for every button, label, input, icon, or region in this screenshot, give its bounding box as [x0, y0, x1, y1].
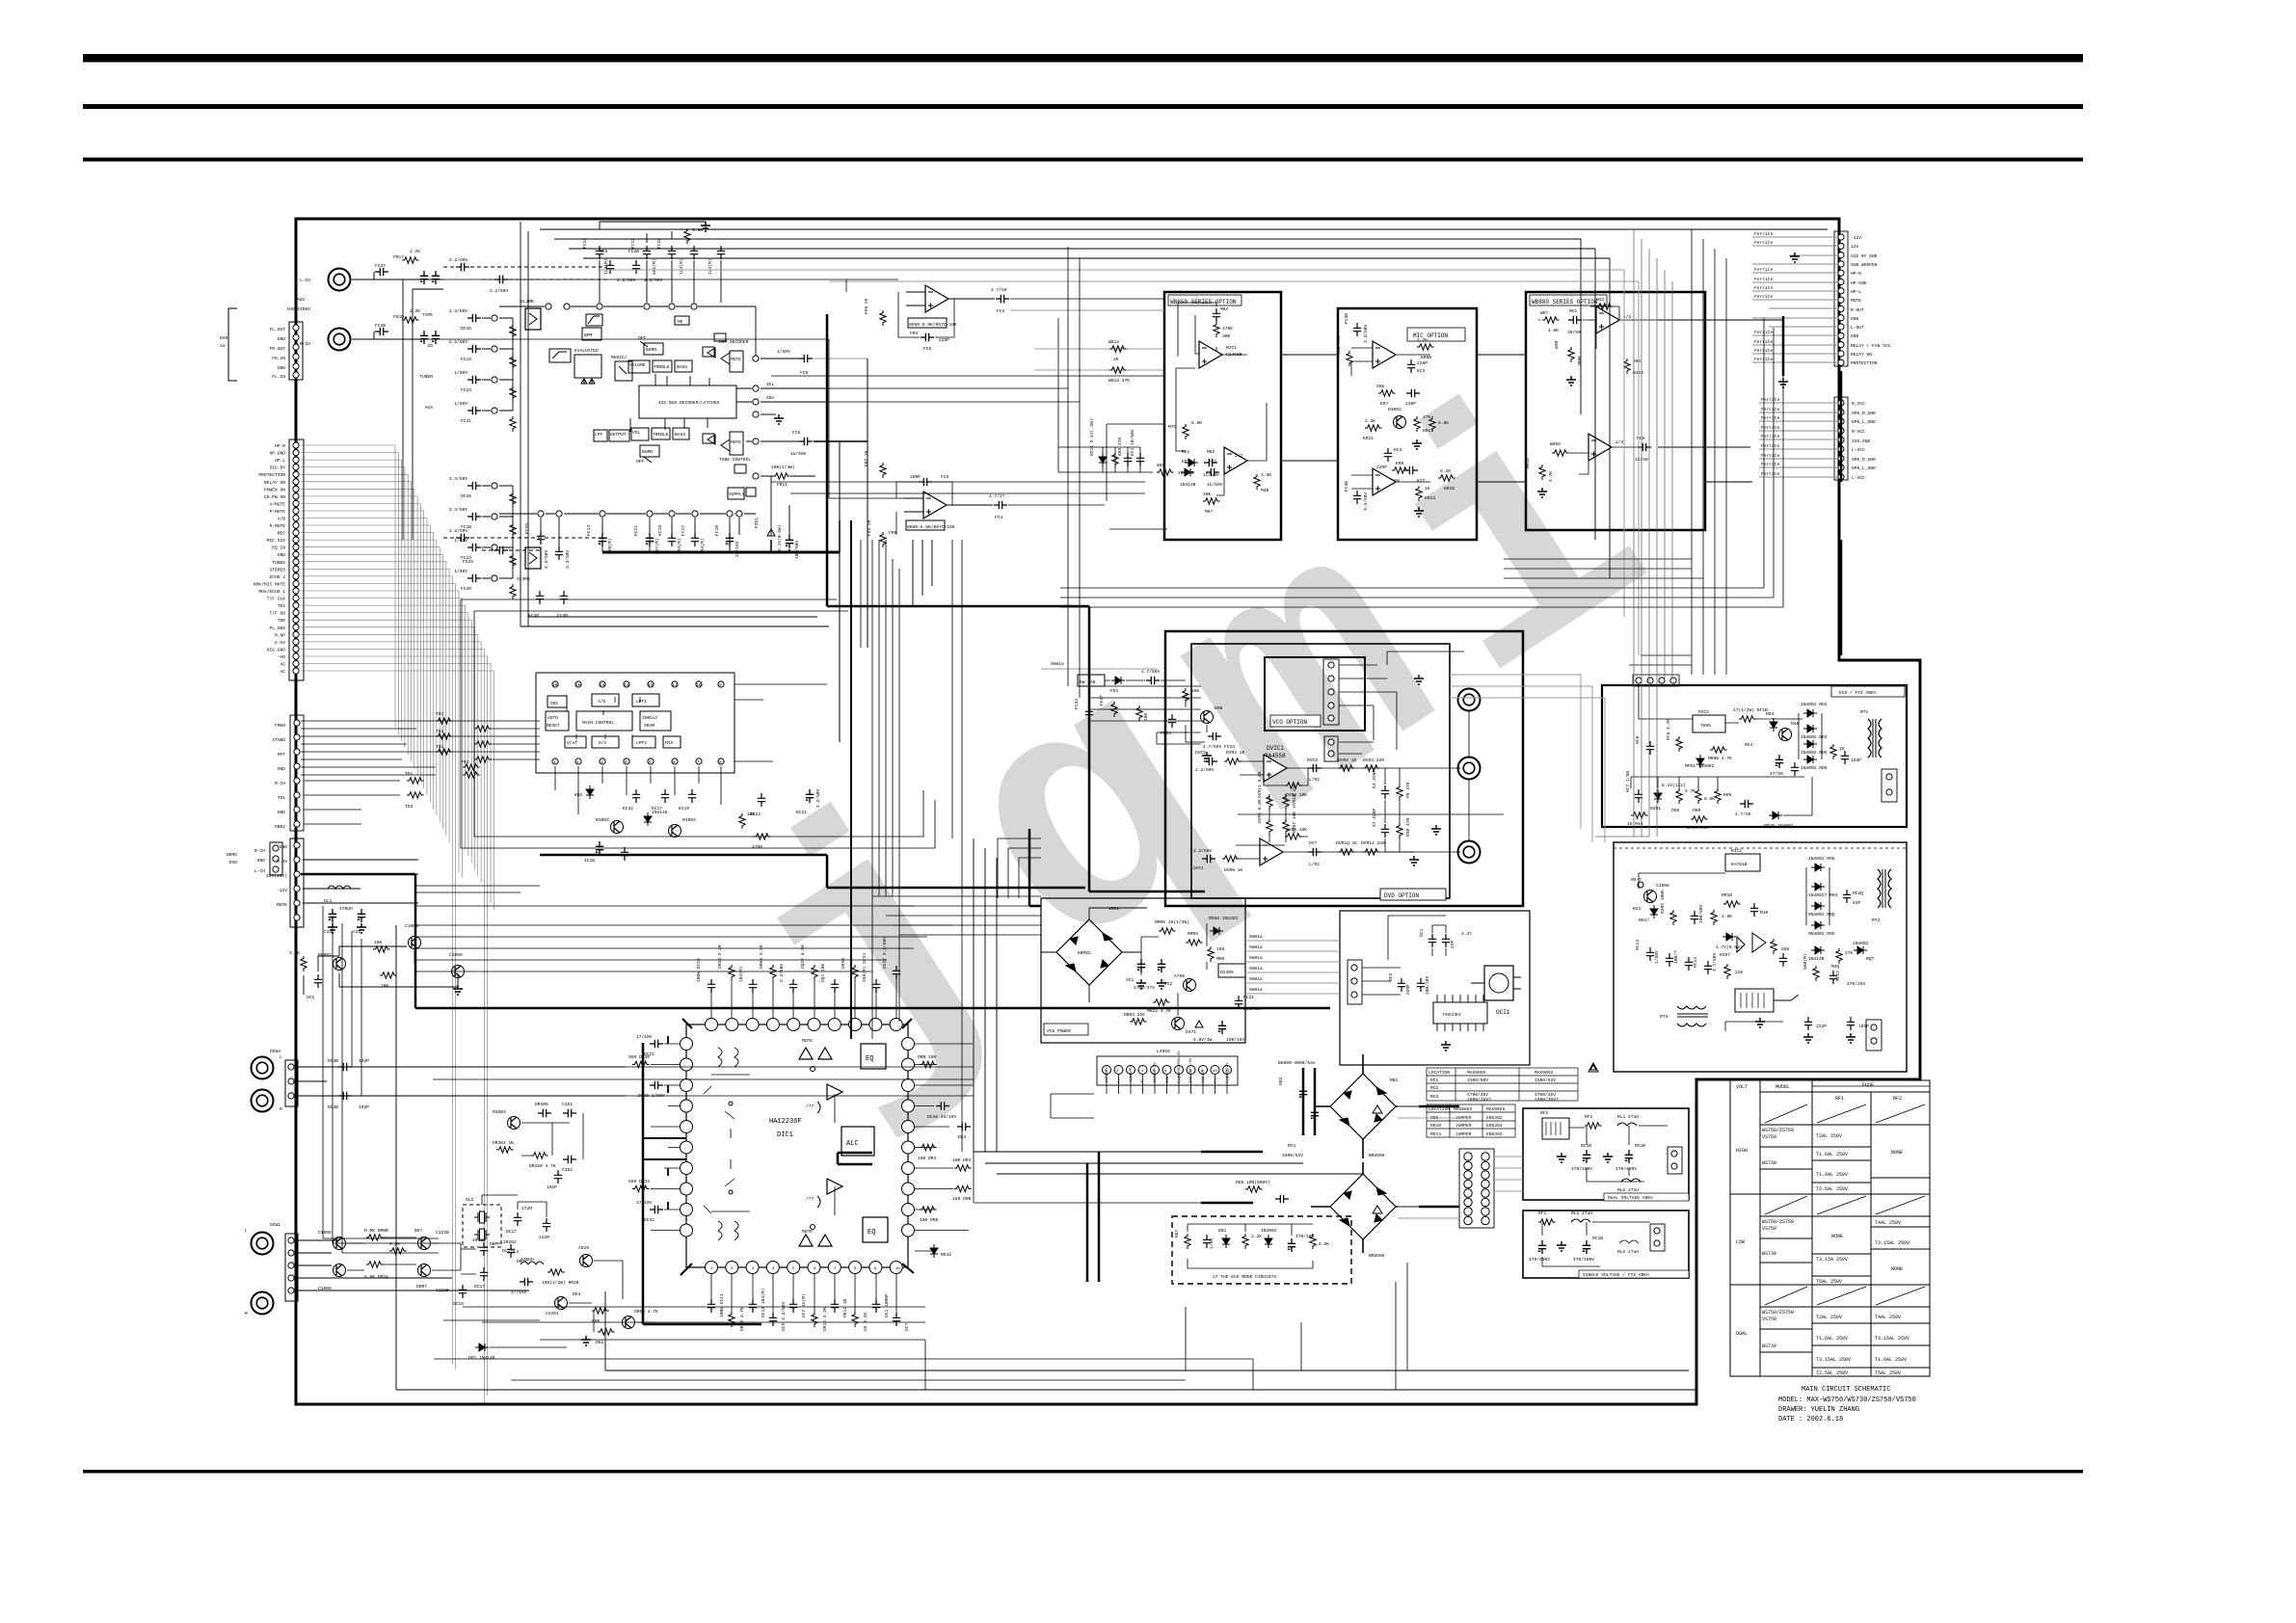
- svg-text:L: L: [280, 1054, 282, 1060]
- svg-text:R: R: [280, 1106, 282, 1112]
- svg-text:RELAY ON: RELAY ON: [264, 480, 285, 486]
- eco bottom row: [1625, 771, 1812, 831]
- svg-text:0550-0.9K/057C-15K: 0550-0.9K/057C-15K: [909, 322, 957, 328]
- svg-text:HIGH: HIGH: [1736, 1148, 1748, 1154]
- svg-text:DC13 104(M): DC13 104(M): [761, 1289, 766, 1317]
- svg-text:10K: 10K: [747, 811, 756, 817]
- svg-text:3300/63V: 3300/63V: [1282, 1153, 1303, 1158]
- svg-text:C352: C352: [562, 1167, 573, 1173]
- svg-text:RESET: RESET: [547, 723, 560, 729]
- svg-text:1N414B: 1N414B: [1808, 956, 1825, 962]
- pin 27 + cap FC9: [753, 349, 868, 376]
- svg-text:M7C: M7C: [1168, 424, 1177, 430]
- eco regulator RIC2 7805: [1635, 686, 1802, 769]
- svg-text:FC3B: FC3B: [1344, 481, 1349, 492]
- svg-text:MODEL: MODEL: [1775, 1084, 1790, 1090]
- mux block B: [517, 547, 541, 582]
- pin 24 + FR11: [753, 465, 815, 488]
- svg-text:2.2K: 2.2K: [1251, 1234, 1262, 1239]
- single voltage interior: [1529, 1211, 1665, 1266]
- svg-text:8: 8: [719, 759, 722, 765]
- svg-text:M4Q: M4Q: [1831, 964, 1840, 970]
- svg-text:102P: 102P: [359, 1058, 369, 1064]
- heavy wires bottom right: [1087, 1106, 1459, 1282]
- svg-text:200P: 200P: [910, 474, 921, 480]
- svg-text:MIC1: MIC1: [1226, 345, 1237, 351]
- svg-text:HP-R: HP-R: [1851, 271, 1861, 277]
- svg-text:4.7/50V: 4.7/50V: [1712, 952, 1718, 971]
- svg-text:9mH1a: 9mH1a: [1249, 955, 1263, 961]
- svg-text:M4B: M4B: [1791, 721, 1800, 727]
- svg-text:T2AL 250V: T2AL 250V: [1816, 1315, 1842, 1320]
- wires from mcu right side: [734, 684, 827, 761]
- svg-text:10: 10: [895, 1267, 900, 1271]
- svg-text:103P: 103P: [1858, 1024, 1869, 1029]
- svg-text:20202: 20202: [503, 1239, 517, 1245]
- svg-text:GND2: GND2: [275, 824, 285, 830]
- svg-text:D01: D01: [1218, 1228, 1227, 1234]
- svg-text:R-CH: R-CH: [254, 848, 265, 854]
- svg-text:Ferrite: Ferrite: [1754, 277, 1774, 282]
- svg-text:DVR6 6.8K: DVR6 6.8K: [1257, 799, 1263, 823]
- svg-text:3.3/50V: 3.3/50V: [565, 549, 571, 569]
- svg-text:1K: 1K: [1425, 486, 1430, 492]
- svg-text:PROTECTION: PROTECTION: [1851, 360, 1878, 366]
- svg-text:RC7 1/50: RC7 1/50: [1625, 771, 1631, 792]
- svg-text:222M: 222M: [539, 1235, 549, 1240]
- svg-text:NONE: NONE: [1831, 1234, 1843, 1239]
- svg-text:47K: 47K: [1845, 950, 1854, 956]
- svg-text:470/400V: 470/400V: [1571, 1166, 1592, 1172]
- svg-text:40P352V: 40P352V: [1106, 1067, 1109, 1083]
- svg-text:DR69 4.7K: DR69 4.7K: [634, 1309, 658, 1315]
- svg-text:RC1B: RC1B: [1635, 1143, 1645, 1149]
- connector P1 FL/FR 6pin: [269, 322, 303, 380]
- left vertical feeders: [323, 906, 439, 1253]
- dual voltage interior: [1540, 1110, 1682, 1193]
- svg-text:D/A: D/A: [599, 740, 607, 746]
- svg-text:D2495: D2495: [1220, 970, 1234, 975]
- BURN OFF switch lower: [636, 445, 659, 465]
- svg-text:R1003: R1003: [596, 817, 609, 823]
- svg-text:GND: GND: [278, 810, 286, 815]
- psu box outline: [1614, 842, 1907, 1072]
- top header bar 1: [83, 54, 2083, 63]
- eco label: [1831, 686, 1905, 697]
- mid dense cluster KR11 KD11 KC1: [1058, 318, 1223, 529]
- svg-text:DRN 100: DRN 100: [918, 1054, 937, 1060]
- svg-text:KRB 47K: KRB 47K: [1336, 335, 1342, 355]
- wires jacks to opamps: [424, 279, 904, 498]
- wire loop around MCU: [461, 599, 935, 848]
- svg-text:TONE CONTROL: TONE CONTROL: [719, 457, 751, 463]
- svg-text:T3.15AL 250V: T3.15AL 250V: [1875, 1240, 1909, 1246]
- svg-text:470/25V: 470/25V: [1847, 981, 1866, 987]
- svg-text:TAPE: TAPE: [422, 312, 433, 318]
- svg-text:DC36: DC36: [461, 326, 471, 332]
- svg-text:R09: R09: [1723, 792, 1732, 798]
- dvd option label: [1380, 889, 1446, 900]
- svg-text:RG7: RG7: [1174, 1229, 1180, 1237]
- svg-text:10K: 10K: [381, 983, 389, 989]
- svg-text:3.3/50V: 3.3/50V: [1363, 492, 1369, 511]
- svg-text:L-VCC: L-VCC: [1852, 447, 1865, 453]
- svg-text:HP.L: HP.L: [275, 458, 285, 464]
- jack DCW1 R: [245, 1292, 274, 1317]
- WB880 SERIES OPTION box: [1526, 292, 1705, 530]
- decoder arrows up: [630, 374, 709, 432]
- svg-text:13: 13: [624, 682, 629, 688]
- svg-text:DEMO: DEMO: [227, 852, 237, 858]
- svg-text:RC17: RC17: [1835, 971, 1841, 981]
- svg-text:56K: 56K: [1191, 688, 1200, 694]
- svg-text:OC1: OC1: [1419, 928, 1425, 937]
- svg-text:100W DC11: 100W DC11: [719, 1293, 725, 1317]
- svg-text:M4B: M4B: [1261, 488, 1269, 493]
- svg-text:RL1 27uH: RL1 27uH: [1571, 1211, 1592, 1216]
- svg-text:R10: R10: [1760, 910, 1769, 916]
- svg-text:VCO OPTION: VCO OPTION: [1272, 719, 1307, 726]
- svg-text:RD4: RD4: [1766, 711, 1775, 717]
- vcd power outline: [1041, 898, 1245, 1043]
- svg-text:14: 14: [600, 682, 605, 688]
- svg-text:EN5392: EN5392: [1486, 1115, 1503, 1121]
- svg-text:560 DR33: 560 DR33: [628, 1179, 650, 1184]
- svg-text:KR6B: KR6B: [1421, 355, 1431, 360]
- DVIC1 rc to ground: [1372, 768, 1441, 865]
- svg-text:A708: A708: [1174, 973, 1185, 979]
- svg-text:DC1: DC1: [307, 995, 315, 1000]
- svg-text:DIC1: DIC1: [777, 1131, 793, 1139]
- svg-text:BRU606: BRU606: [1369, 1253, 1385, 1259]
- svg-text:OUTPUT: OUTPUT: [610, 432, 627, 438]
- svg-text:M6?: M6?: [1205, 509, 1214, 515]
- svg-text:HP-L: HP-L: [1851, 289, 1861, 295]
- svg-text:RQ7: RQ7: [1866, 956, 1875, 962]
- svg-text:6.8K: 6.8K: [1438, 420, 1449, 426]
- svg-text:T/F DO: T/F DO: [269, 611, 285, 617]
- svg-text:+10mA.5v: +10mA.5v: [1130, 1064, 1134, 1083]
- svg-text:300K: 300K: [1577, 356, 1583, 366]
- svg-text:MC1: MC1: [1569, 308, 1578, 314]
- svg-text:RC1: RC1: [1430, 1078, 1439, 1083]
- psu transformer right: [1872, 869, 1891, 923]
- svg-text:6.8V/1W: 6.8V/1W: [1193, 1037, 1213, 1043]
- svg-text:STEREO: STEREO: [269, 567, 285, 572]
- svg-text:BASS: BASS: [675, 432, 685, 438]
- WB880 interior: [1525, 297, 1658, 497]
- OFF BURN switch upper: [638, 335, 663, 355]
- svg-text:1N4002 RD6: 1N4002 RD6: [1801, 765, 1828, 771]
- svg-text:EQ: EQ: [866, 1055, 873, 1063]
- svg-text:1N4148: 1N4148: [652, 810, 668, 815]
- center vertical bus pair: [840, 359, 868, 742]
- svg-text:C1008: C1008: [318, 1230, 332, 1236]
- PWL BPM small blocks: [582, 314, 602, 340]
- svg-text:G-GV: G-GV: [275, 640, 285, 646]
- warning triangles: [1589, 1063, 1598, 1072]
- svg-text:100W DC24: 100W DC24: [696, 958, 702, 982]
- svg-text:DCW3: DCW3: [270, 1049, 280, 1054]
- oci1 connector: [1348, 960, 1401, 1004]
- svg-text:2.2/50V: 2.2/50V: [617, 278, 636, 283]
- svg-text:DC36: DC36: [461, 493, 471, 499]
- svg-text:POWER ON: POWER ON: [264, 487, 285, 492]
- svg-text:DC32: DC32: [644, 1217, 654, 1223]
- DIC1 bottom external caps row: [707, 1274, 910, 1331]
- svg-text:D59: D59: [1671, 808, 1680, 813]
- svg-text:272M: 272M: [521, 1206, 532, 1211]
- svg-text:KC19: KC19: [679, 806, 689, 811]
- svg-text:EN5392: EN5392: [1486, 1131, 1503, 1137]
- svg-text:DQ1 10K: DQ1 10K: [820, 963, 826, 982]
- svg-text:T1.6AL 250V: T1.6AL 250V: [1816, 1152, 1848, 1157]
- svg-text:DRM DECODER: DRM DECODER: [719, 339, 749, 345]
- svg-text:R207: R207: [1720, 952, 1730, 958]
- svg-text:KC4: KC4: [1394, 447, 1402, 453]
- caps near DL2: [482, 1195, 550, 1240]
- psu relay bottom: [1725, 989, 1869, 1043]
- svg-text:10K: 10K: [1143, 712, 1149, 721]
- connector P3 power 6pin: [266, 838, 304, 927]
- svg-text:FC3?: FC3?: [1099, 695, 1105, 705]
- svg-text:WS750/ZS750: WS750/ZS750: [1762, 1219, 1794, 1225]
- svg-text:DC27 2.2/50V: DC27 2.2/50V: [882, 937, 888, 969]
- svg-text:DL1: DL1: [324, 898, 333, 904]
- svg-text:DVO3 220: DVO3 220: [1363, 758, 1384, 763]
- lower blocks row LPF OUTPUT VOLUME TREBLE BASS: [594, 428, 689, 441]
- resistor W612/W613 to WB650: [1108, 339, 1130, 384]
- svg-text:RC13: RC13: [1693, 957, 1698, 968]
- svg-text:1C/50V: 1C/50V: [1207, 482, 1223, 488]
- WB650 SERIES OPTION box: [1164, 292, 1281, 540]
- svg-text:TUNED: TUNED: [272, 560, 285, 566]
- svg-text:SND: SND: [278, 766, 286, 772]
- dvd left feed bundle: [1089, 686, 1201, 744]
- svg-text:ECHO 2: ECHO 2: [269, 574, 285, 580]
- svg-text:FC34: FC34: [1074, 699, 1080, 709]
- svg-text:SIG.GND: SIG.GND: [1852, 439, 1871, 444]
- svg-text:FC17: FC17: [681, 525, 686, 536]
- svg-text:DW LAB: DW LAB: [1080, 679, 1096, 685]
- svg-text:1/50V: 1/50V: [454, 569, 467, 574]
- svg-text:MUTE: MUTE: [277, 902, 287, 908]
- svg-text:3300/50V: 3300/50V: [1467, 1078, 1488, 1083]
- top header bar 2: [83, 104, 2083, 109]
- right side nested loops: [1060, 229, 1783, 675]
- svg-text:6.8K: 6.8K: [1191, 420, 1202, 426]
- svg-text:FC11: FC11: [633, 525, 639, 536]
- svg-text:FC30: FC30: [461, 586, 471, 592]
- CN-R1 labels: [1851, 235, 1891, 366]
- svg-text:MUTE: MUTE: [731, 357, 741, 362]
- svg-text:RT2: RT2: [1872, 918, 1881, 923]
- svg-text:DVC3: DVC3: [1307, 758, 1318, 763]
- svg-text:RE: RE: [678, 319, 683, 325]
- svg-text:B6?: B6?: [414, 1228, 423, 1234]
- svg-text:12V: 12V: [1851, 244, 1859, 250]
- svg-text:NONE: NONE: [1891, 1150, 1903, 1156]
- svg-text:KR8: KR8: [1396, 461, 1404, 466]
- svg-text:DVD OPTION: DVD OPTION: [1384, 892, 1419, 899]
- svg-text:FC25: FC25: [524, 523, 530, 534]
- svg-text:RE42: RE42: [941, 1252, 951, 1258]
- svg-text:K27: K27: [1417, 478, 1426, 484]
- svg-text:OC1 1000P: OC1 1000P: [884, 1293, 890, 1317]
- svg-text:AC: AC: [280, 662, 285, 668]
- svg-text:DATE : 2002.6.18: DATE : 2002.6.18: [1778, 1416, 1843, 1423]
- bottom caps row: FC14 FC11 KC16 FC17 FC10 FZD1 FC24: [586, 476, 800, 559]
- svg-text:L-OUT: L-OUT: [1851, 325, 1864, 331]
- svg-text:FC3B: FC3B: [557, 613, 568, 619]
- svg-text:JUMPER: JUMPER: [1455, 1131, 1472, 1137]
- svg-text:1800/35V?: 1800/35V?: [1535, 1097, 1559, 1103]
- dcw3 coupling caps: [298, 1058, 626, 1110]
- svg-text:CO.PW ON: CO.PW ON: [264, 494, 285, 500]
- svg-text:L-CH: L-CH: [254, 868, 265, 874]
- svg-text:4.7/50: 4.7/50: [991, 287, 1007, 293]
- svg-text:AUTO: AUTO: [547, 715, 558, 721]
- svg-text:DC38 33/10V: DC38 33/10V: [927, 1114, 957, 1120]
- svg-text:T2AL 250V: T2AL 250V: [1816, 1133, 1842, 1139]
- table text: [1736, 1082, 1909, 1376]
- svg-text:RF2: RF2: [1893, 1096, 1902, 1102]
- DVD A3 bracket: [220, 308, 237, 381]
- heavy corner connections DIC1: [643, 1019, 914, 1275]
- svg-text:3.3?: 3.3?: [1461, 931, 1472, 937]
- svg-text:MR6B 4.7K: MR6B 4.7K: [1708, 756, 1732, 761]
- svg-text:CX201: CX201: [546, 1311, 559, 1317]
- dual row header: [1459, 1149, 1494, 1228]
- svg-text:11: 11: [672, 682, 678, 688]
- svg-text:RR06 10(1/2W): RR06 10(1/2W): [1155, 919, 1189, 925]
- svg-text:GND: GND: [278, 552, 286, 558]
- svg-text:GND: GND: [278, 365, 286, 371]
- svg-text:SCL: SCL: [766, 382, 775, 387]
- svg-text:FR6: FR6: [889, 530, 897, 536]
- mux block A: [521, 299, 541, 330]
- svg-text:RZD1: RZD1: [1650, 806, 1661, 811]
- eco box outline: [1602, 685, 1907, 827]
- svg-text:DL2: DL2: [466, 1197, 474, 1203]
- svg-text:KR2 47K: KR2 47K: [1117, 437, 1123, 456]
- svg-text:TD2: TD2: [278, 603, 286, 609]
- svg-text:R21: R21: [1633, 906, 1642, 912]
- svg-text:AUX: AUX: [297, 297, 306, 303]
- RE box: [675, 316, 689, 325]
- svg-text:FC9: FC9: [800, 370, 809, 376]
- nested left loop wires: [403, 222, 829, 626]
- svg-text:22NF: 22NF: [1405, 984, 1411, 995]
- top caps FC13 FC12 FC32 FC15: [582, 222, 725, 303]
- svg-text:RD13: RD13: [1430, 1131, 1441, 1137]
- svg-text:T4AL 250V: T4AL 250V: [1875, 1315, 1901, 1320]
- pin 26 + FC8: [746, 430, 868, 457]
- svg-text:FC23: FC23: [461, 387, 471, 393]
- svg-text:TREBLE: TREBLE: [654, 364, 670, 370]
- oci1 caps: [1388, 916, 1472, 1051]
- svg-text:MDA/ECHO 1: MDA/ECHO 1: [258, 589, 285, 595]
- svg-text:12V(15V): 12V(15V): [266, 873, 287, 879]
- svg-text:30/50: 30/50: [1567, 330, 1581, 335]
- svg-text:FC10: FC10: [714, 525, 720, 536]
- svg-text:FL.IN: FL.IN: [272, 374, 285, 380]
- svg-text:1U4(M): 1U4(M): [679, 258, 684, 275]
- svg-text:MUSIC/: MUSIC/: [611, 355, 627, 360]
- svg-text:TD3: TD3: [405, 804, 414, 810]
- svg-text:MUTE: MUTE: [731, 439, 741, 445]
- svg-text:FM60: FM60: [275, 723, 285, 729]
- svg-text:DC1?: DC1?: [474, 1284, 485, 1290]
- svg-text:VOLT: VOLT: [1736, 1084, 1748, 1090]
- svg-text:VC2: VC2: [1164, 981, 1173, 987]
- svg-text:RF1: RF1: [1835, 1096, 1844, 1102]
- svg-text:2.2/50V: 2.2/50V: [1193, 848, 1213, 854]
- svg-text:RC2Q: RC2Q: [1853, 891, 1863, 896]
- svg-text:KC1 10/50V: KC1 10/50V: [1130, 429, 1135, 456]
- svg-text:WS730: WS730: [1762, 1251, 1776, 1257]
- svg-text:DC4B: DC4B: [328, 1104, 338, 1110]
- svg-text:DR150 4.7K: DR150 4.7K: [529, 1163, 556, 1169]
- svg-text:8.6K: 8.6K: [1319, 1241, 1329, 1247]
- svg-text:T2.5AL 250V: T2.5AL 250V: [1816, 1186, 1848, 1192]
- svg-text:100/50V: 100/50V: [794, 540, 800, 559]
- DL2 dashed crystal box: [463, 1197, 511, 1254]
- svg-text:TD1: TD1: [405, 771, 414, 777]
- svg-text:A3: A3: [220, 343, 226, 349]
- svg-text:STAND: STAND: [272, 737, 285, 743]
- svg-text:DVD: DVD: [220, 335, 228, 341]
- svg-text:DVR8 18K: DVR8 18K: [1286, 827, 1307, 833]
- svg-text:MIX: MIX: [665, 740, 674, 746]
- svg-text:OSC: OSC: [550, 701, 559, 706]
- svg-text:220P: 220P: [1405, 401, 1416, 407]
- svg-text:FC34: FC34: [1161, 731, 1171, 736]
- svg-text:470/400V: 470/400V: [1573, 1257, 1594, 1263]
- svg-text:10K: 10K: [374, 940, 383, 945]
- svg-text:RC1B: RC1B: [1592, 1236, 1603, 1241]
- svg-text:D62: D62: [596, 1340, 604, 1345]
- svg-text:SIG BY: SIG BY: [269, 466, 285, 471]
- svg-text:BPM: BPM: [584, 333, 593, 338]
- eco diode ladder: [1770, 702, 1861, 777]
- svg-text:KC32: KC32: [623, 806, 633, 811]
- svg-text:M8002: M8002: [318, 952, 332, 958]
- svg-text:T4AL 250V: T4AL 250V: [1875, 1220, 1901, 1226]
- svg-text:1/50V: 1/50V: [777, 349, 790, 355]
- svg-text:Ferrite: Ferrite: [1754, 285, 1774, 291]
- svg-text:SUB WOOFER: SUB WOOFER: [1851, 262, 1878, 268]
- center vertical bus bundle: [861, 540, 1041, 1152]
- heavy supply bus line: [602, 551, 840, 554]
- svg-text:4C: 4C: [1141, 1078, 1145, 1083]
- svg-text:WS730: WS730: [1762, 1160, 1776, 1166]
- input select caps bank A: [419, 308, 516, 432]
- vcd power label: [1044, 1024, 1088, 1035]
- psu diode ladder right: [1802, 856, 1875, 987]
- svg-text:1.8K: 1.8K: [1548, 328, 1559, 333]
- svg-text:W6?: W6?: [1540, 310, 1549, 316]
- DIC1 right external: [915, 1044, 973, 1258]
- VCO OPTION box: [1265, 652, 1464, 750]
- right vertical feeder bundle: [1595, 229, 1672, 837]
- svg-text:6.8K: 6.8K: [692, 227, 703, 233]
- svg-text:OFF: OFF: [638, 335, 647, 341]
- svg-text:SINGLE VOLTAGE / FTZ AREA: SINGLE VOLTAGE / FTZ AREA: [1583, 1272, 1649, 1278]
- svg-text:MAIN CONTROL: MAIN CONTROL: [582, 720, 614, 726]
- svg-text:1N414B: 1N414B: [1180, 482, 1196, 488]
- svg-text:FZD1: FZD1: [754, 518, 760, 528]
